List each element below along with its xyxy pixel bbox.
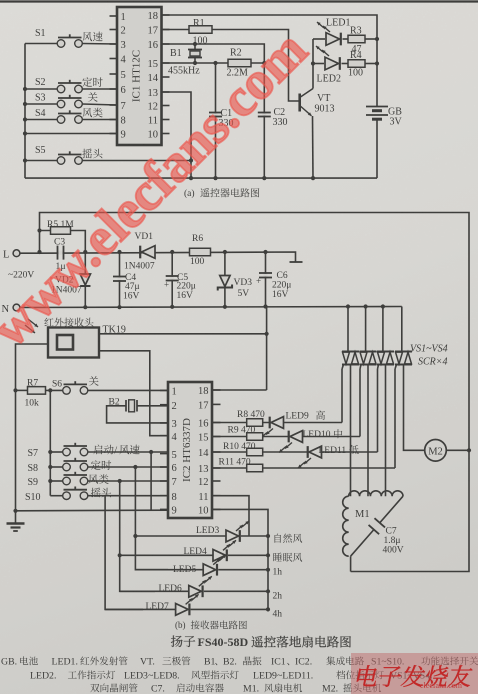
svg-text:elecfans.com: elecfans.com [420,681,463,690]
